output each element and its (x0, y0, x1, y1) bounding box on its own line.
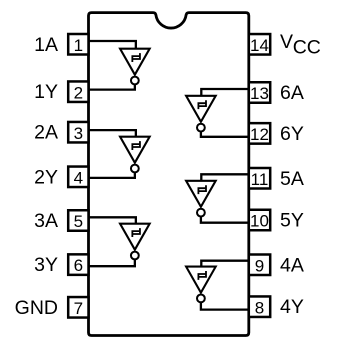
IC package body U1 (DIP-14) with orientation notch (89, 13, 249, 336)
inverter U1E (Schmitt-trigger) (186, 181, 216, 207)
inverter U1B (Schmitt-trigger) (120, 137, 150, 163)
svg-text:6A: 6A (280, 82, 304, 104)
wire U1F output to pin 12 (201, 132, 249, 137)
pin 8 box (249, 296, 270, 317)
pin 11 box (249, 168, 270, 189)
inversion bubble of U1F (197, 124, 205, 132)
svg-text:1A: 1A (34, 34, 58, 56)
wire U1C output to pin 6 (89, 259, 135, 266)
pin 2 box (68, 81, 88, 102)
wire U1D output to pin 8 (201, 302, 249, 309)
svg-text:10: 10 (250, 212, 269, 231)
svg-text:7: 7 (74, 299, 83, 318)
inverter U1F (Schmitt-trigger) (186, 96, 216, 122)
svg-text:CC: CC (293, 36, 321, 58)
pin 9 box (249, 255, 270, 276)
wire pin 11 to U1E input (201, 174, 249, 181)
inverter U1A (Schmitt-trigger) (120, 49, 150, 75)
wire pin 1 to U1A input (89, 41, 136, 49)
pin 10 box (249, 210, 270, 231)
svg-text:3: 3 (74, 124, 83, 143)
svg-text:6Y: 6Y (280, 123, 304, 145)
svg-text:2A: 2A (34, 122, 58, 144)
svg-text:5A: 5A (280, 168, 304, 190)
svg-text:1Y: 1Y (34, 81, 58, 103)
svg-text:GND: GND (15, 297, 58, 319)
svg-text:4A: 4A (280, 254, 304, 276)
wire U1B output to pin 4 (89, 172, 135, 178)
pin 6 box (68, 254, 88, 275)
svg-text:V: V (280, 31, 293, 53)
svg-text:5Y: 5Y (280, 210, 304, 232)
svg-text:13: 13 (250, 84, 269, 103)
svg-text:1: 1 (74, 36, 83, 55)
svg-text:2Y: 2Y (34, 166, 58, 188)
svg-text:5: 5 (74, 212, 83, 231)
svg-text:8: 8 (255, 298, 264, 317)
svg-text:2: 2 (74, 83, 83, 102)
inversion bubble of U1C (131, 252, 139, 260)
svg-text:11: 11 (251, 170, 269, 189)
net label VCC (pin 14) (280, 31, 321, 58)
wire U1E output to pin 10 (201, 217, 249, 223)
wire pin 3 to U1B input (89, 130, 136, 137)
inverter U1C (Schmitt-trigger) (120, 224, 150, 250)
inverter U1D (Schmitt-trigger) (186, 267, 216, 293)
svg-text:9: 9 (255, 256, 264, 275)
pin 14 box (249, 34, 270, 55)
pin 4 box (68, 167, 88, 188)
pin 7 box (68, 297, 88, 318)
inversion bubble of U1B (131, 165, 139, 173)
inversion bubble of U1D (197, 295, 205, 303)
inversion bubble of U1E (197, 209, 205, 217)
svg-text:4Y: 4Y (280, 296, 304, 318)
pin 13 box (249, 82, 270, 103)
svg-text:4: 4 (74, 168, 83, 187)
svg-text:12: 12 (250, 125, 269, 144)
pin 1 box (68, 34, 88, 55)
svg-text:3Y: 3Y (34, 254, 58, 276)
wire pin 5 to U1C input (89, 217, 136, 223)
svg-text:14: 14 (250, 36, 269, 55)
pin 3 box (68, 122, 88, 143)
wire U1A output to pin 2 (89, 84, 135, 89)
svg-text:3A: 3A (34, 210, 58, 232)
pin 5 box (68, 210, 88, 231)
wire pin 9 to U1D input (201, 261, 249, 267)
inversion bubble of U1A (131, 77, 139, 85)
pin 12 box (249, 123, 270, 144)
svg-text:6: 6 (74, 256, 83, 275)
wire pin 13 to U1F input (201, 89, 249, 96)
